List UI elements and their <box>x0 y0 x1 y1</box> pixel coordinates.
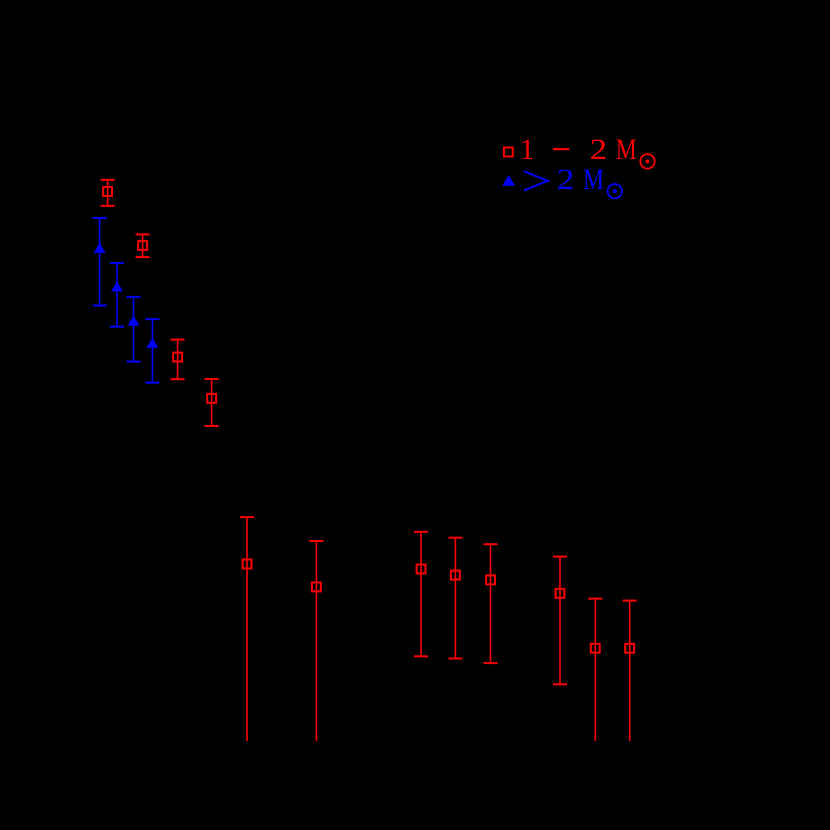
svg-text:2: 2 <box>590 134 608 166</box>
svg-text:2: 2 <box>557 164 575 196</box>
svg-text:M: M <box>616 134 637 166</box>
svg-text:1: 1 <box>520 134 535 166</box>
svg-text:M: M <box>583 164 604 196</box>
